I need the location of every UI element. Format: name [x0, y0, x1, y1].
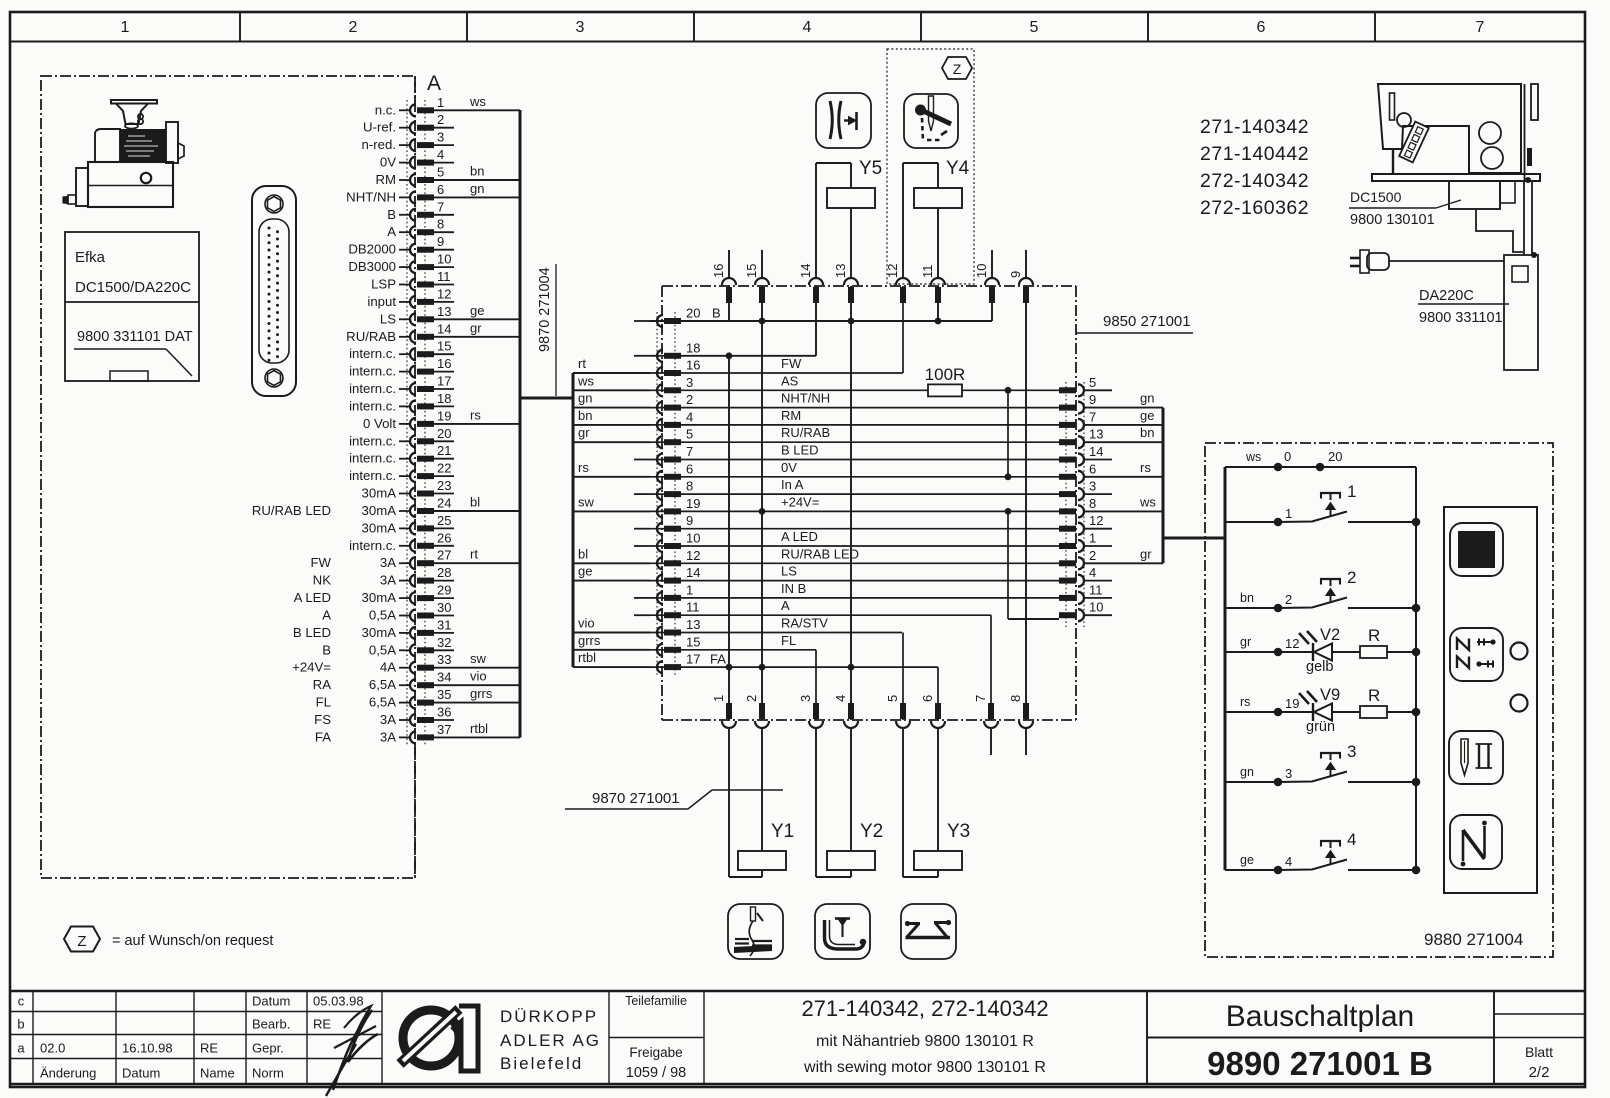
svg-text:9800 331101: 9800 331101 [1419, 310, 1503, 326]
svg-text:1: 1 [711, 695, 726, 702]
svg-text:11: 11 [920, 265, 935, 279]
svg-text:= auf Wunsch/on request: = auf Wunsch/on request [112, 933, 273, 949]
svg-text:A: A [322, 608, 331, 623]
svg-text:rs: rs [578, 460, 589, 475]
svg-text:14: 14 [437, 321, 451, 336]
svg-text:intern.c.: intern.c. [349, 468, 396, 483]
svg-text:8: 8 [1089, 496, 1096, 511]
svg-text:Gepr.: Gepr. [252, 1041, 284, 1056]
svg-text:DB2000: DB2000 [348, 242, 396, 257]
svg-text:grün: grün [1306, 719, 1335, 735]
svg-text:Blatt: Blatt [1525, 1044, 1553, 1060]
svg-text:26: 26 [437, 530, 451, 545]
svg-text:R: R [1368, 626, 1380, 645]
svg-text:10: 10 [974, 264, 989, 278]
svg-text:7: 7 [1089, 409, 1096, 424]
svg-text:LSP: LSP [371, 277, 396, 292]
svg-text:gr: gr [578, 425, 590, 440]
svg-text:3A: 3A [380, 729, 396, 744]
svg-text:24: 24 [437, 496, 451, 511]
svg-text:FA: FA [710, 652, 726, 667]
svg-text:3A: 3A [380, 555, 396, 570]
svg-text:DÜRKOPP: DÜRKOPP [500, 1007, 598, 1026]
svg-text:22: 22 [437, 461, 451, 476]
svg-text:RM: RM [781, 408, 801, 423]
svg-text:gn: gn [1140, 391, 1154, 406]
svg-text:30mA: 30mA [362, 625, 397, 640]
svg-text:12: 12 [1285, 636, 1299, 651]
svg-text:9800 130101: 9800 130101 [1350, 212, 1435, 228]
svg-text:14: 14 [798, 264, 813, 278]
svg-text:14: 14 [686, 565, 700, 580]
svg-text:30mA: 30mA [362, 520, 397, 535]
svg-text:13: 13 [437, 304, 451, 319]
svg-text:8: 8 [686, 479, 693, 494]
svg-text:Bielefeld: Bielefeld [500, 1054, 583, 1073]
svg-text:input: input [367, 294, 396, 309]
svg-text:100R: 100R [925, 365, 966, 384]
svg-text:sw: sw [578, 494, 595, 509]
svg-text:19: 19 [686, 496, 700, 511]
svg-text:3: 3 [686, 375, 693, 390]
svg-text:IN B: IN B [781, 581, 806, 596]
svg-text:1: 1 [686, 582, 693, 597]
svg-text:ws: ws [469, 94, 486, 109]
svg-text:9: 9 [1089, 392, 1096, 407]
svg-text:271-140342: 271-140342 [1200, 116, 1309, 138]
svg-text:8: 8 [437, 217, 444, 232]
svg-text:05.03.98: 05.03.98 [313, 994, 364, 1009]
svg-text:9850 271001: 9850 271001 [1103, 313, 1191, 330]
svg-text:02.0: 02.0 [40, 1041, 65, 1056]
svg-text:4: 4 [833, 695, 848, 702]
svg-text:DC1500/DA220C: DC1500/DA220C [75, 279, 191, 296]
svg-text:0V: 0V [781, 460, 797, 475]
svg-text:B: B [712, 306, 721, 321]
svg-text:1: 1 [1089, 531, 1096, 546]
svg-text:RE: RE [200, 1041, 218, 1056]
svg-text:bn: bn [470, 164, 484, 179]
svg-text:21: 21 [437, 443, 451, 458]
svg-text:30mA: 30mA [362, 503, 397, 518]
svg-text:gn: gn [1240, 765, 1254, 779]
svg-text:NHT/NH: NHT/NH [346, 189, 396, 204]
svg-text:14: 14 [1089, 444, 1103, 459]
svg-text:n-red.: n-red. [362, 137, 396, 152]
svg-text:2: 2 [349, 19, 358, 36]
svg-text:12: 12 [1089, 513, 1103, 528]
svg-text:Datum: Datum [122, 1066, 160, 1081]
svg-text:3: 3 [798, 695, 813, 702]
svg-text:16: 16 [686, 358, 700, 373]
svg-text:0,5A: 0,5A [369, 642, 396, 657]
svg-text:A LED: A LED [294, 590, 331, 605]
svg-text:ADLER AG: ADLER AG [500, 1031, 601, 1050]
svg-text:V9: V9 [1320, 686, 1340, 704]
svg-text:Z: Z [77, 933, 86, 950]
svg-text:0,5A: 0,5A [369, 608, 396, 623]
svg-text:2: 2 [744, 695, 759, 702]
svg-text:DA220C: DA220C [1419, 288, 1474, 304]
svg-text:0 Volt: 0 Volt [363, 416, 396, 431]
svg-text:6: 6 [920, 695, 935, 702]
svg-text:V2: V2 [1320, 626, 1340, 644]
svg-text:0V: 0V [380, 155, 396, 170]
svg-text:9: 9 [437, 234, 444, 249]
svg-text:29: 29 [437, 583, 451, 598]
svg-text:n.c.: n.c. [375, 102, 396, 117]
svg-text:ge: ge [1240, 853, 1254, 867]
svg-text:7: 7 [686, 444, 693, 459]
svg-text:1: 1 [1347, 482, 1356, 501]
svg-text:bn: bn [1140, 425, 1154, 440]
svg-text:15: 15 [686, 634, 700, 649]
svg-text:15: 15 [744, 264, 759, 278]
svg-text:ws: ws [1245, 450, 1261, 464]
svg-text:ge: ge [470, 303, 484, 318]
svg-text:B: B [387, 207, 396, 222]
svg-text:11: 11 [686, 600, 700, 615]
svg-text:271-140342, 272-140342: 271-140342, 272-140342 [801, 996, 1048, 1021]
svg-text:gn: gn [578, 391, 592, 406]
svg-text:+24V=: +24V= [292, 660, 331, 675]
svg-text:20: 20 [686, 306, 700, 321]
svg-text:3: 3 [437, 130, 444, 145]
svg-text:1: 1 [121, 19, 130, 36]
svg-text:intern.c.: intern.c. [349, 364, 396, 379]
svg-text:16: 16 [711, 264, 726, 278]
svg-text:4: 4 [803, 19, 812, 36]
svg-text:6: 6 [437, 182, 444, 197]
svg-text:Y2: Y2 [860, 821, 883, 842]
svg-text:34: 34 [437, 670, 451, 685]
svg-text:30mA: 30mA [362, 486, 397, 501]
svg-text:+24V=: +24V= [781, 494, 819, 509]
svg-text:3: 3 [576, 19, 585, 36]
svg-text:9: 9 [1008, 271, 1023, 278]
svg-text:ge: ge [578, 564, 592, 579]
svg-text:2: 2 [1347, 568, 1356, 587]
svg-text:c: c [18, 994, 25, 1009]
svg-text:rt: rt [578, 356, 586, 371]
svg-text:RU/RAB: RU/RAB [346, 329, 396, 344]
svg-text:DC1500: DC1500 [1350, 189, 1402, 205]
svg-text:Y5: Y5 [859, 158, 882, 179]
svg-text:RE: RE [313, 1017, 331, 1032]
svg-text:rs: rs [470, 407, 481, 422]
svg-text:A: A [387, 224, 396, 239]
svg-text:B LED: B LED [781, 443, 819, 458]
svg-text:4: 4 [1285, 854, 1292, 869]
svg-text:vio: vio [578, 616, 595, 631]
svg-text:Y4: Y4 [946, 158, 970, 179]
svg-text:Name: Name [200, 1066, 235, 1081]
svg-text:19: 19 [437, 408, 451, 423]
svg-text:9870 271001: 9870 271001 [592, 790, 680, 807]
svg-text:FL: FL [316, 695, 331, 710]
svg-text:6: 6 [1257, 19, 1266, 36]
svg-text:5: 5 [686, 427, 693, 442]
svg-text:4A: 4A [380, 660, 396, 675]
svg-text:4: 4 [437, 147, 444, 162]
svg-text:31: 31 [437, 617, 451, 632]
svg-text:Änderung: Änderung [40, 1066, 96, 1081]
svg-text:intern.c.: intern.c. [349, 346, 396, 361]
svg-text:10: 10 [686, 531, 700, 546]
svg-text:rs: rs [1140, 460, 1151, 475]
svg-text:B: B [322, 642, 331, 657]
svg-text:271-140442: 271-140442 [1200, 143, 1309, 165]
svg-text:2: 2 [437, 112, 444, 127]
svg-text:bn: bn [1240, 591, 1254, 605]
svg-text:33: 33 [437, 652, 451, 667]
svg-text:A: A [427, 72, 441, 95]
svg-text:1: 1 [437, 95, 444, 110]
svg-text:28: 28 [437, 565, 451, 580]
svg-text:with sewing motor 9800 130101: with sewing motor 9800 130101 R [803, 1059, 1046, 1076]
svg-text:36: 36 [437, 705, 451, 720]
svg-text:FS: FS [314, 712, 331, 727]
svg-text:4: 4 [1347, 830, 1356, 849]
svg-text:b: b [17, 1017, 24, 1032]
svg-text:NHT/NH: NHT/NH [781, 391, 830, 406]
svg-text:mit Nähantrieb 9800 130101 R: mit Nähantrieb 9800 130101 R [816, 1033, 1034, 1050]
svg-text:15: 15 [437, 339, 451, 354]
svg-text:5: 5 [1089, 375, 1096, 390]
svg-text:RU/RAB: RU/RAB [781, 425, 830, 440]
svg-text:gr: gr [1140, 546, 1152, 561]
svg-text:6,5A: 6,5A [369, 695, 396, 710]
svg-text:7: 7 [437, 199, 444, 214]
svg-text:rt: rt [470, 547, 478, 562]
svg-text:RM: RM [375, 172, 396, 187]
svg-text:272-160362: 272-160362 [1200, 197, 1309, 219]
svg-text:6: 6 [686, 461, 693, 476]
svg-text:AS: AS [781, 373, 799, 388]
svg-text:23: 23 [437, 478, 451, 493]
svg-text:FW: FW [310, 555, 331, 570]
svg-text:30: 30 [437, 600, 451, 615]
svg-text:rtbl: rtbl [578, 650, 596, 665]
svg-text:grrs: grrs [470, 686, 493, 701]
svg-text:RA: RA [313, 677, 332, 692]
svg-text:vio: vio [470, 669, 487, 684]
svg-text:9870 271004: 9870 271004 [537, 267, 553, 352]
svg-text:3A: 3A [380, 573, 396, 588]
svg-text:17: 17 [437, 374, 451, 389]
svg-text:intern.c.: intern.c. [349, 538, 396, 553]
svg-text:intern.c.: intern.c. [349, 381, 396, 396]
svg-text:Z: Z [953, 61, 962, 77]
svg-text:30mA: 30mA [362, 590, 397, 605]
svg-text:FA: FA [315, 729, 331, 744]
svg-text:4: 4 [1089, 565, 1096, 580]
svg-text:10: 10 [437, 252, 451, 267]
svg-text:a: a [17, 1041, 25, 1056]
svg-text:FL: FL [781, 633, 796, 648]
svg-text:12: 12 [437, 286, 451, 301]
svg-text:U-ref.: U-ref. [363, 120, 396, 135]
svg-text:Norm: Norm [252, 1066, 284, 1081]
svg-text:gelb: gelb [1306, 659, 1333, 675]
svg-text:grrs: grrs [578, 633, 601, 648]
svg-text:9800 331101 DAT: 9800 331101 DAT [77, 329, 193, 345]
svg-text:Bauschaltplan: Bauschaltplan [1226, 1000, 1414, 1033]
svg-text:2/2: 2/2 [1529, 1064, 1550, 1081]
svg-text:1: 1 [1285, 506, 1292, 521]
svg-text:37: 37 [437, 722, 451, 737]
svg-text:bn: bn [578, 408, 592, 423]
svg-text:Bearb.: Bearb. [252, 1017, 290, 1032]
svg-text:2: 2 [1089, 548, 1096, 563]
svg-text:0: 0 [1284, 449, 1291, 464]
svg-text:11: 11 [1089, 582, 1103, 597]
svg-text:17: 17 [686, 652, 700, 667]
svg-text:Efka: Efka [75, 249, 106, 266]
svg-text:rtbl: rtbl [470, 721, 488, 736]
svg-text:13: 13 [833, 264, 848, 278]
svg-text:ge: ge [1140, 408, 1154, 423]
svg-text:9880 271004: 9880 271004 [1424, 930, 1523, 949]
svg-text:16: 16 [437, 356, 451, 371]
svg-text:bl: bl [578, 546, 588, 561]
svg-text:272-140342: 272-140342 [1200, 170, 1309, 192]
svg-text:ws: ws [1139, 494, 1156, 509]
svg-text:7: 7 [973, 695, 988, 702]
svg-text:25: 25 [437, 513, 451, 528]
svg-text:13: 13 [686, 617, 700, 632]
svg-text:9: 9 [686, 513, 693, 528]
svg-text:2: 2 [686, 392, 693, 407]
svg-text:LS: LS [380, 311, 396, 326]
svg-text:2: 2 [1285, 592, 1292, 607]
svg-text:intern.c.: intern.c. [349, 433, 396, 448]
svg-text:19: 19 [1285, 696, 1299, 711]
svg-text:gr: gr [1240, 635, 1251, 649]
svg-text:LS: LS [781, 564, 797, 579]
svg-text:3: 3 [1285, 766, 1292, 781]
svg-text:20: 20 [1328, 449, 1342, 464]
svg-text:A: A [781, 598, 790, 613]
svg-text:RU/RAB LED: RU/RAB LED [252, 503, 331, 518]
svg-text:32: 32 [437, 635, 451, 650]
svg-text:Y3: Y3 [947, 821, 970, 842]
svg-text:20: 20 [437, 426, 451, 441]
svg-text:18: 18 [686, 340, 700, 355]
svg-text:35: 35 [437, 687, 451, 702]
svg-text:gr: gr [470, 320, 482, 335]
svg-text:Teilefamilie: Teilefamilie [625, 994, 687, 1008]
svg-text:16.10.98: 16.10.98 [122, 1041, 173, 1056]
svg-text:7: 7 [1476, 19, 1485, 36]
svg-text:9890 271001 B: 9890 271001 B [1207, 1045, 1433, 1082]
svg-text:FW: FW [781, 356, 802, 371]
svg-text:A LED: A LED [781, 529, 818, 544]
svg-text:3: 3 [1089, 479, 1096, 494]
svg-text:RU/RAB LED: RU/RAB LED [781, 546, 859, 561]
svg-text:bl: bl [470, 495, 480, 510]
svg-text:R: R [1368, 686, 1380, 705]
svg-text:gn: gn [470, 181, 484, 196]
svg-text:6: 6 [1089, 461, 1096, 476]
svg-text:5: 5 [1030, 19, 1039, 36]
svg-text:sw: sw [470, 651, 487, 666]
svg-text:27: 27 [437, 548, 451, 563]
svg-text:6,5A: 6,5A [369, 677, 396, 692]
svg-text:8: 8 [1008, 695, 1023, 702]
svg-text:3: 3 [1347, 742, 1356, 761]
svg-text:intern.c.: intern.c. [349, 398, 396, 413]
svg-text:12: 12 [686, 548, 700, 563]
svg-text:13: 13 [1089, 427, 1103, 442]
svg-text:RA/STV: RA/STV [781, 616, 828, 631]
svg-text:18: 18 [437, 391, 451, 406]
svg-text:In A: In A [781, 477, 804, 492]
svg-text:Freigabe: Freigabe [629, 1045, 682, 1060]
svg-text:rs: rs [1240, 695, 1250, 709]
svg-text:NK: NK [313, 573, 332, 588]
svg-text:ws: ws [577, 373, 594, 388]
svg-text:3A: 3A [380, 712, 396, 727]
svg-text:1059 / 98: 1059 / 98 [626, 1065, 686, 1081]
svg-text:B LED: B LED [293, 625, 331, 640]
svg-text:DB3000: DB3000 [348, 259, 396, 274]
svg-text:intern.c.: intern.c. [349, 451, 396, 466]
svg-text:Datum: Datum [252, 994, 290, 1009]
svg-text:5: 5 [885, 695, 900, 702]
svg-text:5: 5 [437, 165, 444, 180]
svg-text:11: 11 [437, 269, 451, 284]
svg-text:10: 10 [1089, 600, 1103, 615]
svg-text:4: 4 [686, 409, 693, 424]
svg-text:Y1: Y1 [771, 821, 794, 842]
